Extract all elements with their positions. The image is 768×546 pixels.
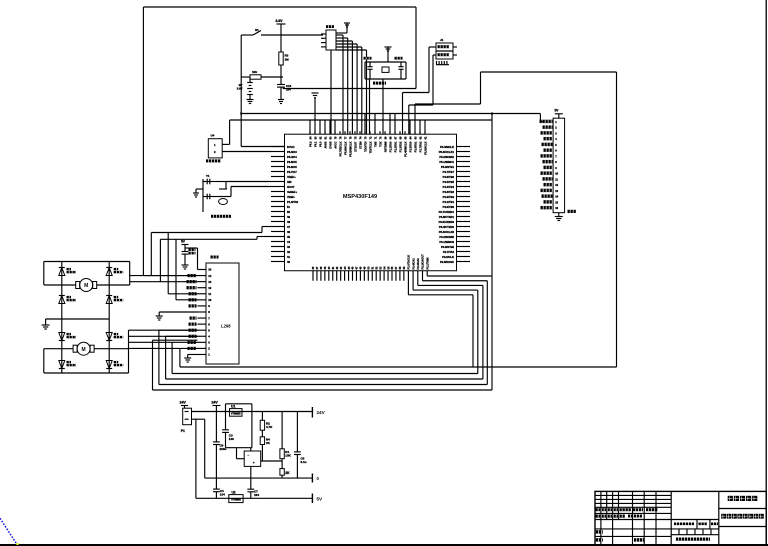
svg-text:P6.6/A6: P6.6/A6 [287,165,297,169]
svg-text:P1.6/TA1: P1.6/TA1 [413,141,417,152]
svg-text:P5.4/MCLK: P5.4/MCLK [440,145,454,149]
svg-text:P6.0: P6.0 [318,141,322,147]
svg-text:41: 41 [287,255,290,259]
svg-text:3.6V: 3.6V [237,86,243,90]
svg-text:P1: P1 [181,429,185,433]
svg-text:P3.7/URXD1: P3.7/URXD1 [439,210,455,214]
svg-text:P4.1/TB1: P4.1/TB1 [443,200,455,204]
svg-text:24V: 24V [180,401,187,405]
svg-text:XOUT: XOUT [287,185,295,189]
svg-text:XT2IN: XT2IN [358,141,362,148]
svg-text:42: 42 [287,250,290,254]
svg-text:P3.0/STE0: P3.0/STE0 [441,245,455,249]
svg-text:0.1u: 0.1u [301,460,307,464]
svg-text:47: 47 [287,225,290,229]
svg-text:M: M [82,347,86,353]
svg-text:11: 11 [208,292,211,296]
svg-text:P1.7/TA2: P1.7/TA2 [418,141,422,152]
svg-text:S1: S1 [255,28,259,32]
svg-text:TDO/TDI: TDO/TDI [363,141,367,152]
svg-text:RST/NMI: RST/NMI [383,141,387,152]
svg-text:P1.4/SMCLK: P1.4/SMCLK [403,141,407,156]
svg-text:48: 48 [287,220,290,224]
svg-text:P3.6/UTXD1: P3.6/UTXD1 [439,215,455,219]
svg-text:P1.0/TA0: P1.0/TA0 [287,200,299,204]
svg-text:XT2OUT: XT2OUT [353,141,357,152]
svg-text:P1.1/TA0: P1.1/TA0 [388,141,392,152]
svg-text:3.6V: 3.6V [276,19,284,23]
svg-text:P3.4/UTXD0: P3.4/UTXD0 [439,225,455,229]
svg-text:AVCC: AVCC [333,141,337,148]
svg-text:13: 13 [208,280,212,284]
svg-text:VREF-: VREF- [287,195,295,199]
svg-text:43: 43 [287,245,290,249]
svg-text:P2.6/CLK: P2.6/CLK [442,255,454,259]
svg-text:P4.6/TB6: P4.6/TB6 [443,175,455,179]
svg-text:51: 51 [287,205,290,209]
svg-text:P6.4/A4: P6.4/A4 [287,155,297,159]
svg-text:10K: 10K [285,454,291,458]
svg-text:P4.5/TB5: P4.5/TB5 [443,180,455,184]
svg-text:P6.7/A7: P6.7/A7 [287,170,297,174]
svg-text:P5.6/ACLK: P5.6/ACLK [343,141,347,154]
svg-text:P2.4/CA1: P2.4/CA1 [411,258,415,270]
svg-text:P4.4/TB4: P4.4/TB4 [443,185,455,189]
svg-text:VREF+: VREF+ [287,175,296,179]
svg-text:45: 45 [287,235,290,239]
svg-text:V78M05: V78M05 [231,498,241,502]
svg-text:P4.7/TB7: P4.7/TB7 [443,170,455,174]
svg-text:+: + [253,460,256,465]
svg-text:10: 10 [208,298,212,302]
svg-text:49: 49 [287,215,290,219]
svg-text:P3.1/SIMO0: P3.1/SIMO0 [439,240,454,244]
svg-text:U2: U2 [232,490,236,494]
svg-text:P5.3/UCLK1: P5.3/UCLK1 [439,150,455,154]
svg-text:XIN: XIN [287,180,292,184]
svg-text:P5.5/SMCLK: P5.5/SMCLK [348,141,352,156]
svg-text:J1: J1 [440,38,444,42]
svg-text:40: 40 [287,260,290,264]
svg-text:12: 12 [208,286,212,290]
svg-text:P2.1/TAIN: P2.1/TAIN [425,257,429,269]
svg-text:P2.7/TA0: P2.7/TA0 [443,250,455,254]
svg-text:V78M05: V78M05 [231,411,241,415]
svg-text:2K: 2K [285,471,290,475]
svg-text:50: 50 [287,210,290,214]
svg-text:P2.0/ACLK: P2.0/ACLK [423,141,427,154]
svg-text:DVCC: DVCC [287,145,295,149]
svg-text:4.7K: 4.7K [266,425,273,429]
svg-text:U4: U4 [211,134,215,138]
svg-text:AVSS: AVSS [323,141,327,148]
svg-text:P3.5/URXD0: P3.5/URXD0 [439,220,455,224]
svg-text:10k: 10k [252,70,257,74]
svg-text:DVSS: DVSS [328,141,332,148]
svg-text:P6.2: P6.2 [308,141,312,147]
svg-text:P4.0/TB0: P4.0/TB0 [443,205,455,209]
svg-text:Y1: Y1 [206,174,210,178]
svg-text:P1.0/TACLK: P1.0/TACLK [407,255,411,270]
svg-text:P5.2/SOMI1: P5.2/SOMI1 [439,155,454,159]
svg-text:P5.1/SIMO1: P5.1/SIMO1 [439,160,454,164]
svg-text:P1.5/TA0: P1.5/TA0 [408,141,412,152]
svg-text:5V: 5V [317,497,324,502]
svg-text:1M: 1M [285,58,290,62]
svg-text:P1.3/TA2: P1.3/TA2 [398,141,402,152]
svg-text:TMS: TMS [373,141,377,147]
svg-text:24V: 24V [317,410,326,415]
svg-text:100: 100 [229,437,234,441]
svg-text:P6.3/A3: P6.3/A3 [287,150,297,154]
svg-text:P1.2/TA1: P1.2/TA1 [393,141,397,152]
svg-text:U1: U1 [231,405,235,409]
svg-text:TDI/TCLK: TDI/TCLK [368,141,372,153]
svg-text:MSP430F149: MSP430F149 [343,194,377,200]
svg-text:24V: 24V [211,401,218,405]
svg-text:P2.5/ROSC: P2.5/ROSC [440,260,454,264]
svg-text:46: 46 [287,230,290,234]
svg-text:P4.2/TB2: P4.2/TB2 [443,195,455,199]
svg-text:L298: L298 [221,324,231,329]
svg-text:VeREF+: VeREF+ [287,190,298,194]
svg-text:P4.3/TB3: P4.3/TB3 [443,190,455,194]
svg-text:P3.2/SOMI0: P3.2/SOMI0 [439,235,454,239]
svg-text:P5.0/STE1: P5.0/STE1 [441,165,455,169]
svg-text:14: 14 [208,274,212,278]
svg-text:104: 104 [254,493,259,497]
svg-text:TCK: TCK [378,141,382,146]
svg-text:P2.3/CA0: P2.3/CA0 [416,258,420,270]
svg-text:44: 44 [287,240,290,244]
svg-text:104: 104 [220,493,225,497]
svg-text:P2.2/CAOUT: P2.2/CAOUT [421,254,425,270]
svg-text:−: − [247,452,250,457]
svg-text:15: 15 [208,268,212,272]
svg-text:P6.1: P6.1 [313,141,317,147]
svg-text:P5.7/TBCLK: P5.7/TBCLK [338,141,342,156]
svg-text:M: M [84,283,88,289]
svg-text:P6.5/A5: P6.5/A5 [287,160,297,164]
svg-text:P3.3/UCLK0: P3.3/UCLK0 [439,230,455,234]
